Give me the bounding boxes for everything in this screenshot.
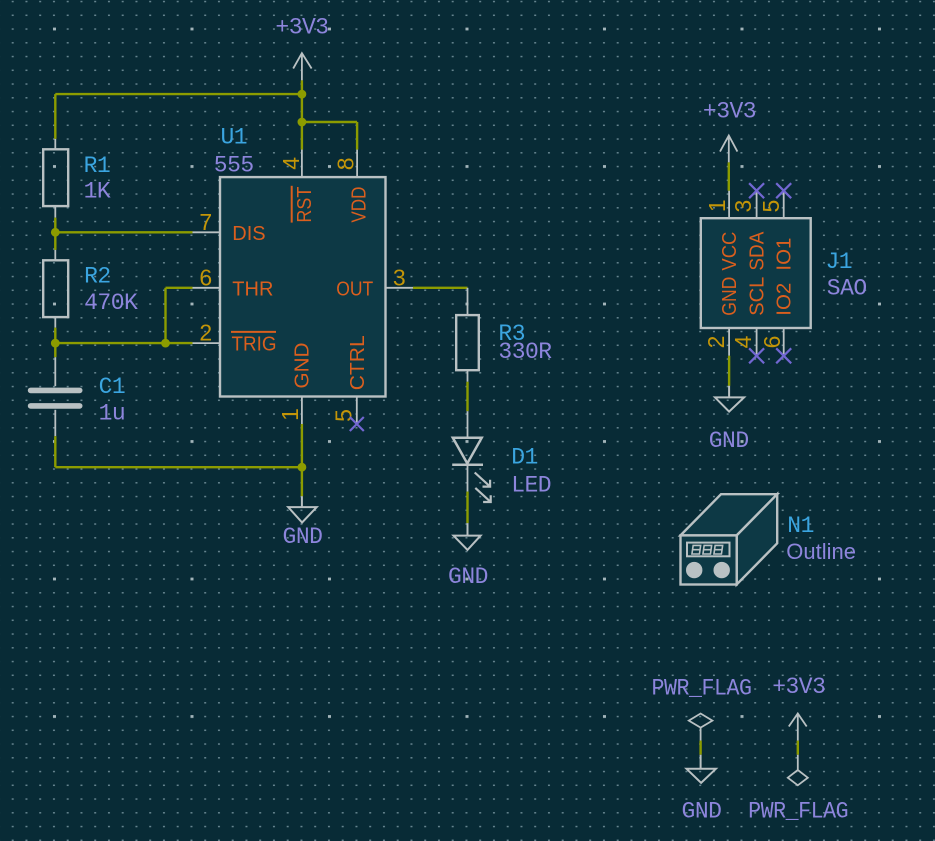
power +3V3 above J1	[720, 136, 737, 163]
connector J1 body	[701, 218, 811, 328]
wire	[54, 94, 56, 139]
svg-text:J1: J1	[826, 249, 853, 275]
wire	[166, 287, 193, 289]
svg-text:1u: 1u	[99, 401, 126, 427]
svg-text:8: 8	[333, 158, 359, 171]
svg-text:GND: GND	[719, 277, 741, 316]
pin 2	[193, 342, 221, 344]
svg-text:3: 3	[393, 264, 406, 290]
svg-text:LED: LED	[511, 473, 551, 499]
svg-text:6: 6	[759, 336, 785, 349]
wire	[413, 287, 468, 289]
ground GND below U1	[288, 496, 317, 522]
svg-text:4: 4	[278, 157, 304, 170]
component N1 outline 3D box	[681, 494, 778, 584]
svg-text:SDA: SDA	[746, 231, 768, 271]
svg-text:330R: 330R	[498, 339, 552, 365]
pin 7	[193, 231, 221, 233]
ground GND below J1	[715, 386, 744, 412]
wire	[728, 162, 730, 190]
svg-text:IO1: IO1	[774, 238, 796, 271]
wire	[54, 218, 56, 250]
svg-text:OUT: OUT	[336, 278, 373, 300]
svg-text:3: 3	[730, 200, 756, 213]
svg-text:5: 5	[758, 200, 784, 213]
svg-text:1: 1	[704, 199, 730, 212]
no-connect X pin 4	[749, 348, 764, 363]
junction	[51, 339, 60, 348]
svg-text:C1: C1	[99, 374, 126, 400]
pin 5	[783, 191, 785, 219]
power flag PWR_FLAG on GND	[689, 714, 713, 741]
wire	[55, 231, 192, 233]
wire	[54, 436, 56, 467]
svg-text:U1: U1	[221, 124, 248, 150]
wire	[301, 80, 303, 149]
wire	[55, 466, 302, 468]
pin 4	[301, 150, 303, 178]
svg-text:1: 1	[277, 408, 303, 421]
ground GND flag	[687, 755, 716, 783]
wire	[797, 741, 799, 755]
wire	[356, 122, 358, 150]
svg-text:555: 555	[214, 152, 254, 178]
svg-text:PWR_FLAG: PWR_FLAG	[748, 799, 848, 825]
pin 2	[728, 328, 730, 356]
capacitor C1	[31, 357, 80, 436]
no-connect X pin 6	[776, 348, 791, 363]
wire	[466, 382, 468, 411]
resistor R2	[43, 250, 68, 328]
wire	[728, 356, 730, 386]
svg-text:PWR_FLAG: PWR_FLAG	[652, 675, 752, 701]
junction	[161, 339, 170, 348]
pin 5	[356, 397, 358, 425]
svg-text:DIS: DIS	[232, 223, 265, 245]
svg-text:470K: 470K	[84, 290, 138, 316]
svg-text:GND: GND	[682, 799, 722, 825]
svg-text:1K: 1K	[84, 179, 111, 205]
svg-text:CTRL: CTRL	[347, 335, 369, 390]
svg-text:VDD: VDD	[349, 187, 371, 223]
svg-text:SAO: SAO	[827, 276, 867, 302]
svg-text:RST: RST	[294, 187, 316, 223]
svg-text:R2: R2	[84, 264, 111, 290]
svg-text:+3V3: +3V3	[275, 14, 328, 40]
svg-text:R1: R1	[84, 153, 111, 179]
wire	[699, 741, 701, 755]
svg-text:Outline: Outline	[786, 539, 856, 564]
wire	[466, 492, 468, 523]
junction	[51, 228, 60, 237]
svg-text:6: 6	[199, 264, 212, 290]
resistor R1	[43, 139, 68, 218]
svg-text:THR: THR	[232, 278, 273, 300]
svg-text:+3V3: +3V3	[703, 98, 756, 124]
svg-text:N1: N1	[787, 513, 814, 539]
svg-text:D1: D1	[511, 444, 538, 470]
svg-text:GND: GND	[448, 564, 488, 590]
wire	[54, 328, 56, 358]
power +3V3 flag bottom right	[789, 714, 807, 741]
no-connect X pin 3	[749, 183, 764, 198]
svg-text:2: 2	[199, 320, 212, 346]
pin 1	[301, 397, 303, 425]
wire	[55, 93, 302, 95]
svg-text:2: 2	[703, 336, 729, 349]
svg-text:GND: GND	[283, 524, 323, 550]
junction	[298, 90, 307, 99]
svg-text:SCL: SCL	[746, 277, 768, 316]
pin 6	[193, 287, 221, 289]
RST overbar	[291, 186, 293, 223]
wire	[164, 288, 166, 343]
svg-text:4: 4	[730, 335, 756, 348]
svg-text:GND: GND	[292, 343, 314, 389]
diode D1 LED	[452, 411, 491, 502]
svg-text:TRIG: TRIG	[232, 334, 277, 356]
svg-text:VCC: VCC	[719, 232, 741, 271]
wire	[301, 424, 303, 496]
pin 3	[756, 191, 758, 219]
svg-text:+3V3: +3V3	[772, 674, 825, 700]
svg-text:IO2: IO2	[774, 283, 796, 316]
pin 4	[756, 328, 758, 356]
TRIG overbar	[231, 331, 276, 333]
pin 3	[386, 287, 414, 289]
IC U1 555 timer body	[220, 177, 386, 396]
junction	[298, 118, 307, 127]
wire	[55, 342, 192, 344]
no-connect X pin 5	[776, 183, 791, 198]
pin 6	[783, 328, 785, 356]
pin 1	[728, 191, 730, 219]
svg-text:7: 7	[199, 209, 212, 235]
no-connect X pin 5	[350, 417, 364, 431]
junction	[298, 463, 307, 472]
power flag PWR_FLAG on +3V3	[788, 755, 808, 786]
wire	[302, 121, 357, 123]
ground GND below LED	[454, 523, 481, 550]
svg-text:GND: GND	[709, 428, 749, 454]
power +3V3 PWR01	[293, 53, 311, 80]
resistor R3	[456, 288, 479, 382]
pin 8	[356, 150, 358, 178]
